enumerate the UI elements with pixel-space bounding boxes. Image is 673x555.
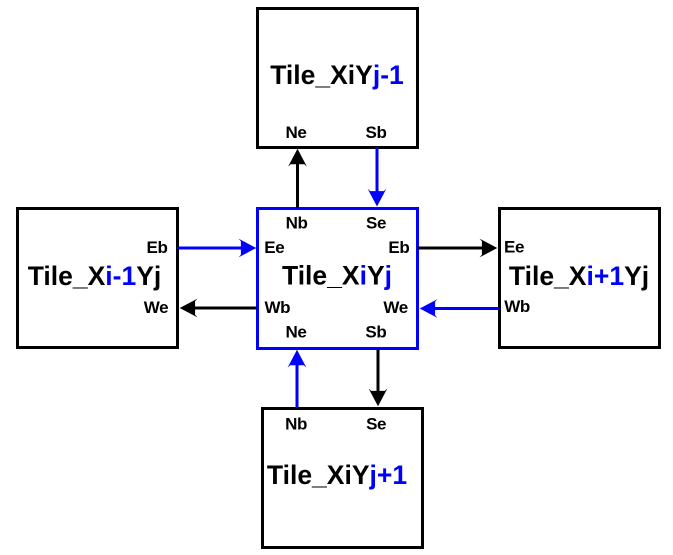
svg-text:Wb: Wb <box>504 297 530 316</box>
wire arrow black up: center Nb to north Ne <box>288 149 307 208</box>
label Tile_Xi-1Yj <box>28 261 162 291</box>
wire arrow black down: center Sb to south Se <box>369 350 388 407</box>
label Tile_XiYj <box>282 261 392 291</box>
box Tile_Xi-1Yj (west tile) <box>18 209 178 348</box>
port label Wb (center tile) <box>264 298 290 317</box>
wire arrow blue right: west Eb to center Ee <box>178 239 257 258</box>
port label Ee (east tile) <box>504 238 524 257</box>
wire arrow blue left: east Wb to center We <box>420 299 500 318</box>
port label We (west tile) <box>144 298 168 317</box>
port label We (center tile) <box>383 298 407 317</box>
box Tile_XiYj-1 (north tile) <box>258 9 418 148</box>
svg-text:We: We <box>144 298 168 317</box>
port label Sb (north tile) <box>366 123 387 142</box>
port label Se (center tile) <box>366 214 386 233</box>
wire arrow blue up: south Nb to center Ne <box>288 350 307 408</box>
wire arrow black left: center Wb to west We <box>180 299 257 318</box>
label Tile_XiYj+1 <box>267 460 407 490</box>
port label Sb (center tile) <box>365 323 386 342</box>
port label Wb (east tile) <box>504 297 530 316</box>
port label Ne (center tile) <box>286 323 307 342</box>
svg-text:Tile_XiYj: Tile_XiYj <box>282 261 392 291</box>
svg-text:Ee: Ee <box>504 238 524 257</box>
svg-text:We: We <box>383 298 407 317</box>
svg-text:Wb: Wb <box>264 298 290 317</box>
wire arrow black right: center Eb to east Ee <box>418 239 498 258</box>
port label Nb (south tile) <box>285 415 307 434</box>
svg-text:Se: Se <box>366 415 386 434</box>
port label Nb (center tile) <box>286 214 308 233</box>
svg-text:Tile_Xi+1Yj: Tile_Xi+1Yj <box>509 261 649 291</box>
svg-text:Eb: Eb <box>147 238 168 257</box>
box Tile_Xi+1Yj (east tile) <box>500 209 660 348</box>
box Tile_XiYj+1 (south tile) <box>263 409 423 548</box>
svg-text:Nb: Nb <box>286 214 308 233</box>
svg-text:Tile_XiYj+1: Tile_XiYj+1 <box>267 460 407 490</box>
svg-text:Se: Se <box>366 214 386 233</box>
label Tile_Xi+1Yj <box>509 261 649 291</box>
svg-text:Sb: Sb <box>366 123 387 142</box>
wire arrow blue down: north Sb to center Se <box>368 148 387 207</box>
port label Eb (center tile) <box>388 238 409 257</box>
svg-text:Nb: Nb <box>285 415 307 434</box>
svg-text:Ne: Ne <box>286 323 307 342</box>
port label Eb (west tile) <box>147 238 168 257</box>
port label Ne (north tile) <box>286 123 307 142</box>
svg-text:Ee: Ee <box>264 238 284 257</box>
svg-text:Eb: Eb <box>388 238 409 257</box>
label Tile_XiYj-1 <box>270 60 404 90</box>
svg-text:Tile_XiYj-1: Tile_XiYj-1 <box>270 60 404 90</box>
svg-text:Sb: Sb <box>365 323 386 342</box>
svg-text:Ne: Ne <box>286 123 307 142</box>
box Tile_XiYj (center tile, blue) <box>258 209 418 349</box>
port label Ee (center tile) <box>264 238 284 257</box>
port label Se (south tile) <box>366 415 386 434</box>
svg-text:Tile_Xi-1Yj: Tile_Xi-1Yj <box>28 261 162 291</box>
